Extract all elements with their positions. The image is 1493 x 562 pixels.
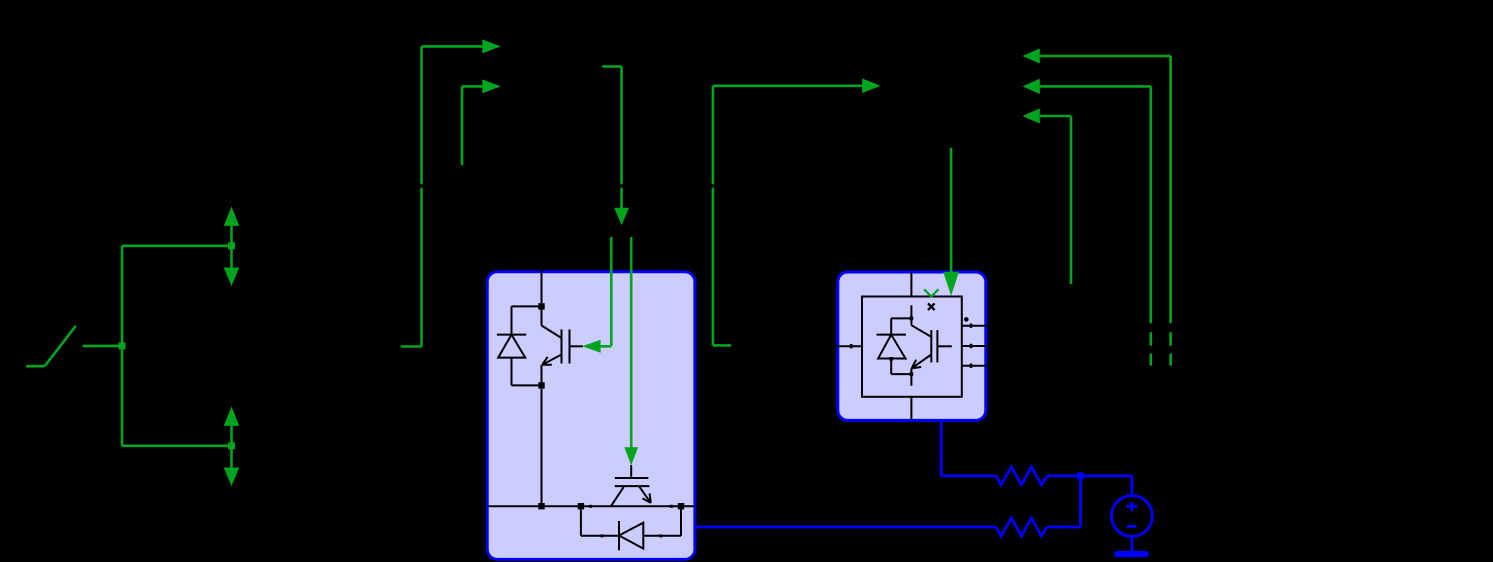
wire A with right arrow: [401, 46, 483, 346]
voltage source V1: [1112, 496, 1153, 537]
diode D3: [877, 334, 906, 336]
wire H with left arrow: [1040, 116, 1071, 284]
GTO Q2: [630, 465, 632, 477]
gate wire into box2: [950, 148, 953, 273]
switch S1: [26, 326, 76, 366]
diode D1: [497, 334, 526, 336]
wire collector bus: [541, 270, 543, 303]
wire R1 to node: [1047, 474, 1080, 477]
diode D2: [581, 509, 619, 535]
wire B with right arrow: [462, 86, 483, 165]
top port stub: [910, 272, 912, 297]
node dots box2: [889, 317, 913, 376]
resistor R1: [996, 467, 1047, 485]
node squares box1: [538, 303, 684, 537]
pin ticks: [850, 324, 972, 368]
goto tag A (double arrow): [224, 207, 240, 287]
rail: [488, 505, 695, 507]
gate wire into box1 GTO: [630, 237, 633, 448]
wire box1 to R2: [695, 526, 996, 529]
wire top branch: [122, 245, 232, 248]
wire bottom branch: [122, 444, 232, 447]
wire R2 to node: [1047, 476, 1080, 527]
IGBT Q3: [911, 318, 931, 337]
wire vertical bus: [121, 246, 124, 446]
box1 internals: [488, 270, 695, 550]
inner top stub: [910, 305, 912, 318]
green check chevron: [924, 289, 938, 296]
polarity dot: [964, 317, 969, 322]
right pins: [961, 326, 987, 366]
wire F with left arrow (top right): [1040, 56, 1171, 366]
wire node to source: [1081, 476, 1132, 496]
wire D loop with right arrow: [713, 86, 863, 346]
wire box2 down: [941, 420, 996, 476]
box2 inner icon frame: [862, 297, 962, 397]
subsystem box1: [487, 272, 695, 560]
subsystem box2: [838, 272, 986, 420]
node (blue): [1077, 472, 1084, 479]
goto tag B (double arrow): [224, 407, 240, 487]
resistor R2: [996, 518, 1047, 536]
blue electrical wires: [695, 420, 1152, 551]
gate wire into box1 IGBT: [601, 237, 612, 346]
wire to diode: [891, 318, 911, 334]
node J1: [119, 342, 126, 349]
ground: [1114, 551, 1149, 557]
x marker: [928, 303, 935, 310]
wire to diode D1: [512, 306, 542, 334]
wire switch to junction: [83, 345, 122, 348]
IGBT Q1: [542, 310, 562, 338]
wire G with left arrow: [1040, 86, 1151, 365]
wire emitter down: [541, 365, 543, 503]
bottom port stub: [910, 397, 912, 420]
wire C with down arrow: [602, 67, 621, 209]
left pin: [837, 345, 863, 347]
